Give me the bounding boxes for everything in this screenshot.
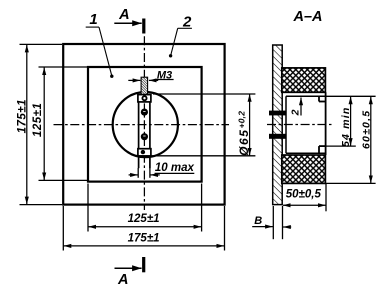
screw section lower	[269, 134, 286, 139]
screw dot upper	[141, 109, 148, 116]
54 min dimension line	[350, 97, 352, 146]
svg-text:A–A: A–A	[292, 9, 322, 25]
svg-text:A: A	[117, 272, 128, 288]
svg-text:175±1: 175±1	[128, 232, 160, 244]
section plate (hatched)	[273, 45, 283, 205]
B arrows	[252, 226, 291, 228]
section centerline	[267, 124, 332, 126]
svg-text:2: 2	[290, 109, 302, 116]
top screw head ring	[142, 96, 146, 100]
svg-text:1: 1	[89, 11, 97, 28]
Ø65 dimension line	[249, 94, 251, 156]
outer square (plate, part 2)	[63, 44, 224, 205]
svg-text:M3: M3	[157, 69, 172, 81]
section arrow A top	[114, 7, 145, 34]
screw section upper	[269, 111, 286, 116]
terminal strip left edge	[138, 95, 140, 169]
M3 stud (threaded)	[141, 77, 148, 94]
top screw head box	[138, 95, 151, 102]
box bottom edge	[286, 152, 326, 154]
bottom 175 extension lines	[63, 206, 224, 251]
M3 dimension arrows	[128, 79, 173, 82]
vertical centerline	[143, 36, 145, 210]
svg-text:175±1: 175±1	[16, 99, 28, 133]
50 right extension line	[325, 183, 327, 211]
svg-text:50±0,5: 50±0,5	[286, 189, 322, 201]
175 left extension lines	[20, 44, 63, 204]
B thickness extension lines	[273, 206, 282, 239]
dim 2 leader	[300, 98, 302, 116]
box left edge	[285, 96, 287, 153]
bottom 125 extension lines	[88, 184, 202, 232]
svg-text:125±1: 125±1	[128, 213, 160, 225]
inner square (opening, part 1)	[88, 67, 202, 182]
lower gasket block (cross-hatched)	[282, 155, 326, 183]
upper gasket block (cross-hatched)	[282, 68, 326, 92]
screw dot lower	[141, 133, 148, 140]
leader 1	[86, 27, 112, 76]
ext line 54 bottom	[325, 145, 355, 147]
svg-text:125±1: 125±1	[32, 103, 44, 137]
svg-text:10 max: 10 max	[155, 162, 195, 174]
svg-text:В: В	[254, 215, 262, 227]
60±0,5 dimension line	[370, 97, 372, 184]
bottom 125 dimension line	[88, 226, 201, 228]
10 max extension lines	[138, 168, 150, 178]
10 max arrows	[129, 173, 195, 175]
terminal strip right edge	[149, 95, 151, 169]
ext line 60 bottom	[325, 182, 375, 184]
leader 2	[171, 28, 192, 55]
125 left extension lines	[39, 67, 88, 180]
box top edge	[286, 95, 326, 97]
bottom screw head box	[138, 149, 151, 156]
svg-text:60±0,5: 60±0,5	[360, 110, 372, 149]
svg-text:54 min: 54 min	[340, 107, 352, 147]
box bottom-right lip	[319, 146, 325, 153]
50±0,5 dimension line	[283, 204, 326, 206]
175 left dimension line	[26, 45, 28, 205]
svg-text:Ø65+0,2: Ø65+0,2	[237, 111, 251, 156]
circle Ø65	[113, 92, 178, 157]
box top-right lip	[319, 96, 325, 101]
svg-text:A: A	[118, 7, 129, 23]
bottom 175 dimension line	[64, 245, 225, 247]
125 left dimension line	[43, 67, 45, 180]
bottom screw dome	[141, 150, 145, 154]
section arrow A bottom	[115, 257, 146, 288]
horizontal centerline left view	[54, 124, 230, 126]
ext line top right	[325, 95, 375, 97]
box right edge	[325, 92, 327, 155]
Ø65 extension lines	[151, 94, 256, 156]
